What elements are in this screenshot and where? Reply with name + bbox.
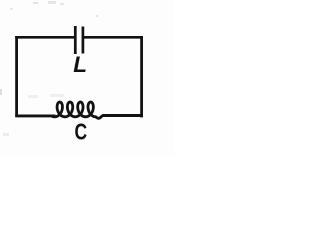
wire top right segment — [84, 36, 143, 39]
capacitor L plate left — [74, 26, 77, 54]
inductor C coil — [52, 102, 104, 118]
speckle noise — [0, 1, 98, 136]
wire bottom right segment — [103, 114, 144, 117]
capacitor L plate right — [82, 27, 85, 54]
wire top left segment — [15, 36, 74, 39]
svg-text:C: C — [75, 120, 88, 145]
svg-text:L: L — [73, 52, 87, 77]
wire right vertical — [140, 36, 143, 117]
background paper — [0, 0, 174, 156]
wire left vertical — [15, 36, 18, 116]
wire bottom left segment — [15, 114, 55, 117]
